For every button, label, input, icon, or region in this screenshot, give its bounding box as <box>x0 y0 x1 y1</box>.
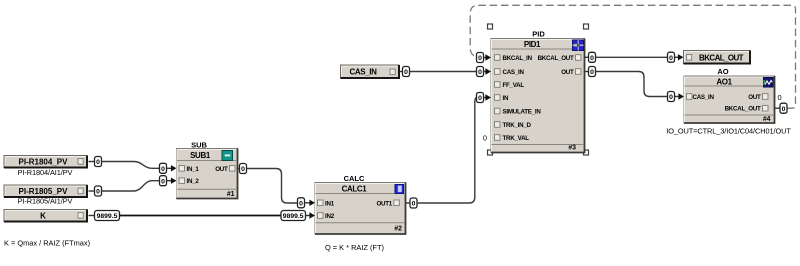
svg-text:Q = K * RAIZ (FT): Q = K * RAIZ (FT) <box>325 243 384 252</box>
svg-text:FF_VAL: FF_VAL <box>503 82 525 89</box>
PID1 pin CAS_IN <box>495 69 525 76</box>
svg-text:CAS_IN: CAS_IN <box>693 94 715 101</box>
svg-text:0: 0 <box>161 178 165 185</box>
wire CAS_IN to PID CAS_IN <box>410 71 477 73</box>
svg-text:IN1: IN1 <box>325 200 335 207</box>
SUB1 pin OUT <box>215 166 235 173</box>
svg-text:AO: AO <box>717 67 728 76</box>
svg-text:#1: #1 <box>227 191 235 198</box>
wire stub into CALC IN2 <box>306 215 311 217</box>
wire stub into PID IN <box>484 97 487 99</box>
value box 0 (CALC IN1) <box>298 198 305 208</box>
svg-text:CALC1: CALC1 <box>342 185 368 194</box>
wire stub into SUB IN_2 <box>167 180 172 182</box>
svg-text:OUT1: OUT1 <box>376 200 392 207</box>
PID1 pin SIMULATE_IN <box>495 108 542 115</box>
PID1 pin TRK_IN_D <box>495 122 532 129</box>
function block CALC1 <box>315 174 406 234</box>
wire stub into SUB IN_1 <box>167 167 172 169</box>
svg-text:#2: #2 <box>394 226 402 233</box>
svg-text:TRK_IN_D: TRK_IN_D <box>503 122 532 129</box>
wire stub SUB OUT <box>238 168 240 170</box>
value box 0 (SUB IN_1) <box>160 163 167 173</box>
dashed feedback wire AO1 BKCAL_OUT to PID BKCAL_IN <box>470 5 795 108</box>
arrow into SUB IN_2 <box>171 178 177 184</box>
svg-text:IN: IN <box>503 95 509 102</box>
wire PI-R1804_PV to SUB IN_1 <box>102 162 160 169</box>
CALC1 icon <box>395 185 404 194</box>
value box 0 (CAS_IN out) <box>403 67 410 77</box>
PID1 icon <box>573 40 584 51</box>
svg-text:0: 0 <box>669 55 673 62</box>
svg-text:SUB1: SUB1 <box>190 151 211 160</box>
svg-text:IN_1: IN_1 <box>187 166 200 173</box>
svg-text:0: 0 <box>590 55 594 62</box>
svg-text:K: K <box>40 212 46 221</box>
wire PID BKCAL_OUT to BKCAL_OUT tag <box>596 56 668 58</box>
value box 0 (PID BKCAL_OUT) <box>589 52 596 62</box>
PID1 pin FF_VAL <box>495 82 525 89</box>
svg-text:#4: #4 <box>763 116 771 123</box>
wire stub PID OUT <box>585 71 589 73</box>
CALC1 pin OUT1 <box>376 200 399 207</box>
reference tag BKCAL_OUT <box>684 51 751 64</box>
svg-text:CAS_IN: CAS_IN <box>503 69 525 76</box>
wire stub PI-R1804_PV to value <box>89 161 95 163</box>
value box 0 (PID OUT) <box>589 67 596 77</box>
value box 0 (SUB IN_2) <box>160 176 167 186</box>
svg-text:0: 0 <box>478 69 482 76</box>
PID1 pin OUT <box>561 69 581 76</box>
svg-text:TRK_VAL: TRK_VAL <box>503 135 530 142</box>
svg-text:PID1: PID1 <box>524 40 541 49</box>
SUB1 pin IN_2 <box>179 178 199 185</box>
wire CALC OUT1 to PID IN <box>417 98 477 204</box>
value box 9899.5 (CALC IN2) <box>281 211 306 221</box>
svg-text:AO1: AO1 <box>716 78 732 87</box>
AO1 pin OUT <box>748 94 768 101</box>
svg-text:0: 0 <box>590 69 594 76</box>
svg-text:0: 0 <box>412 201 416 208</box>
svg-text:0: 0 <box>478 55 482 62</box>
svg-text:OUT: OUT <box>215 166 228 173</box>
PID1 pin IN <box>495 95 509 102</box>
svg-text:PI-R1805_PV: PI-R1805_PV <box>19 187 69 196</box>
selection handle bottom-left <box>488 150 493 155</box>
wire stub into CALC IN1 <box>305 202 310 204</box>
svg-text:SIMULATE_IN: SIMULATE_IN <box>503 109 542 116</box>
value box 0 (CALC OUT1) <box>410 198 417 208</box>
CALC1 pin IN2 <box>318 213 335 220</box>
svg-text:0: 0 <box>161 166 165 173</box>
function block SUB1 <box>177 140 238 198</box>
arrow into BKCAL_OUT tag <box>678 54 684 60</box>
value box 0 (AO1 CAS_IN) <box>668 92 675 102</box>
svg-text:0: 0 <box>96 159 100 166</box>
svg-text:9899.5: 9899.5 <box>97 213 118 220</box>
PID1 pin TRK_VAL <box>495 135 530 142</box>
PID1 pin BKCAL_OUT <box>538 55 581 62</box>
function block AO1 <box>684 67 775 123</box>
svg-text:OUT: OUT <box>748 94 761 101</box>
svg-text:9899.5: 9899.5 <box>283 213 304 220</box>
SUB1 pin IN_1 <box>179 166 199 173</box>
svg-text:PI-R1804/AI1/PV: PI-R1804/AI1/PV <box>18 168 73 177</box>
svg-text:BKCAL_OUT: BKCAL_OUT <box>725 106 761 113</box>
reference tag K <box>4 210 87 222</box>
svg-text:0: 0 <box>669 94 673 101</box>
wire stub K to value <box>89 215 95 217</box>
value box 0 (PID IN) <box>477 93 484 103</box>
AO1 pin BKCAL_OUT <box>725 105 768 112</box>
svg-text:K = Qmax / RAIZ (FTmax): K = Qmax / RAIZ (FTmax) <box>4 239 90 248</box>
wire K to CALC IN2 <box>120 215 282 217</box>
svg-text:BKCAL_OUT: BKCAL_OUT <box>538 55 574 62</box>
value box 0 (PI-R1804_PV out) <box>95 157 102 167</box>
value box 0 (PID CAS_IN) <box>477 67 484 77</box>
selection handle top-left <box>488 24 493 29</box>
wire PI-R1805_PV to SUB IN_2 <box>102 181 160 191</box>
wire stub PI-R1805_PV to value <box>89 190 95 192</box>
wire stub into AO1 CAS_IN <box>675 96 680 98</box>
svg-text:PI-R1805/AI1/PV: PI-R1805/AI1/PV <box>18 197 73 206</box>
svg-text:PID: PID <box>532 30 545 39</box>
svg-text:0: 0 <box>299 201 303 208</box>
svg-text:0: 0 <box>483 134 487 143</box>
arrow into PID IN <box>485 94 491 100</box>
value box 9899.5 (K out) <box>95 211 120 221</box>
reference tag PI-R1805_PV <box>4 185 87 197</box>
wire stub AO1 BKCAL_OUT <box>775 107 781 109</box>
AO1 icon <box>764 78 774 88</box>
svg-text:#3: #3 <box>568 145 576 152</box>
reference tag CAS_IN <box>341 65 400 78</box>
svg-text:0: 0 <box>782 106 786 113</box>
arrow into PID CAS_IN <box>485 68 491 74</box>
SUB1 icon <box>222 151 233 161</box>
svg-text:SUB: SUB <box>191 140 207 149</box>
wire stub into PID CAS_IN <box>484 71 487 73</box>
wire stub into PID BKCAL_IN <box>484 57 487 59</box>
svg-text:0: 0 <box>778 93 782 102</box>
value box 0 (BKCAL_OUT tag in) <box>668 52 675 62</box>
svg-text:0: 0 <box>96 189 100 196</box>
selection handle top-right <box>584 24 589 29</box>
svg-text:PI-R1804_PV: PI-R1804_PV <box>19 158 69 167</box>
svg-text:OUT: OUT <box>561 69 574 76</box>
svg-text:0: 0 <box>404 69 408 76</box>
reference tag PI-R1804_PV <box>4 156 87 168</box>
wire stub CAS_IN to value <box>400 71 403 73</box>
value box 0 (PI-R1805_PV out) <box>95 186 102 196</box>
value box 0 (AO1 BKCAL_OUT) <box>780 103 787 113</box>
function block PID1 <box>491 30 585 153</box>
AO1 pin CAS_IN <box>687 94 715 101</box>
svg-text:IN2: IN2 <box>325 213 335 220</box>
wire SUB OUT to CALC IN1 <box>247 169 298 204</box>
value box 0 (SUB OUT) <box>240 164 247 174</box>
PID1 pin BKCAL_IN <box>495 55 533 62</box>
wire stub into BKCAL_OUT tag <box>675 56 679 58</box>
svg-text:IN_2: IN_2 <box>187 178 200 185</box>
value box 0 (PID BKCAL_IN) <box>477 53 484 63</box>
wire PID OUT to AO1 CAS_IN <box>596 72 668 97</box>
CALC1 pin IN1 <box>318 200 335 207</box>
svg-text:CALC: CALC <box>344 174 365 183</box>
selection handle bottom-right <box>584 150 589 155</box>
svg-text:0: 0 <box>478 95 482 102</box>
svg-text:0: 0 <box>241 166 245 173</box>
wire stub CALC OUT1 <box>406 202 411 204</box>
arrow into PID BKCAL_IN <box>485 54 491 60</box>
wire stub PID BKCAL_OUT <box>585 56 589 58</box>
arrow into AO1 CAS_IN <box>678 93 684 99</box>
svg-text:BKCAL_OUT: BKCAL_OUT <box>699 53 744 62</box>
arrow into CALC IN2 <box>309 212 315 218</box>
svg-text:BKCAL_IN: BKCAL_IN <box>503 55 533 62</box>
svg-text:IO_OUT=CTRL_3/IO1/C04/CH01/OUT: IO_OUT=CTRL_3/IO1/C04/CH01/OUT <box>666 127 791 136</box>
arrow into CALC IN1 <box>309 200 315 206</box>
arrow into SUB IN_1 <box>171 165 177 171</box>
svg-text:CAS_IN: CAS_IN <box>350 68 378 77</box>
